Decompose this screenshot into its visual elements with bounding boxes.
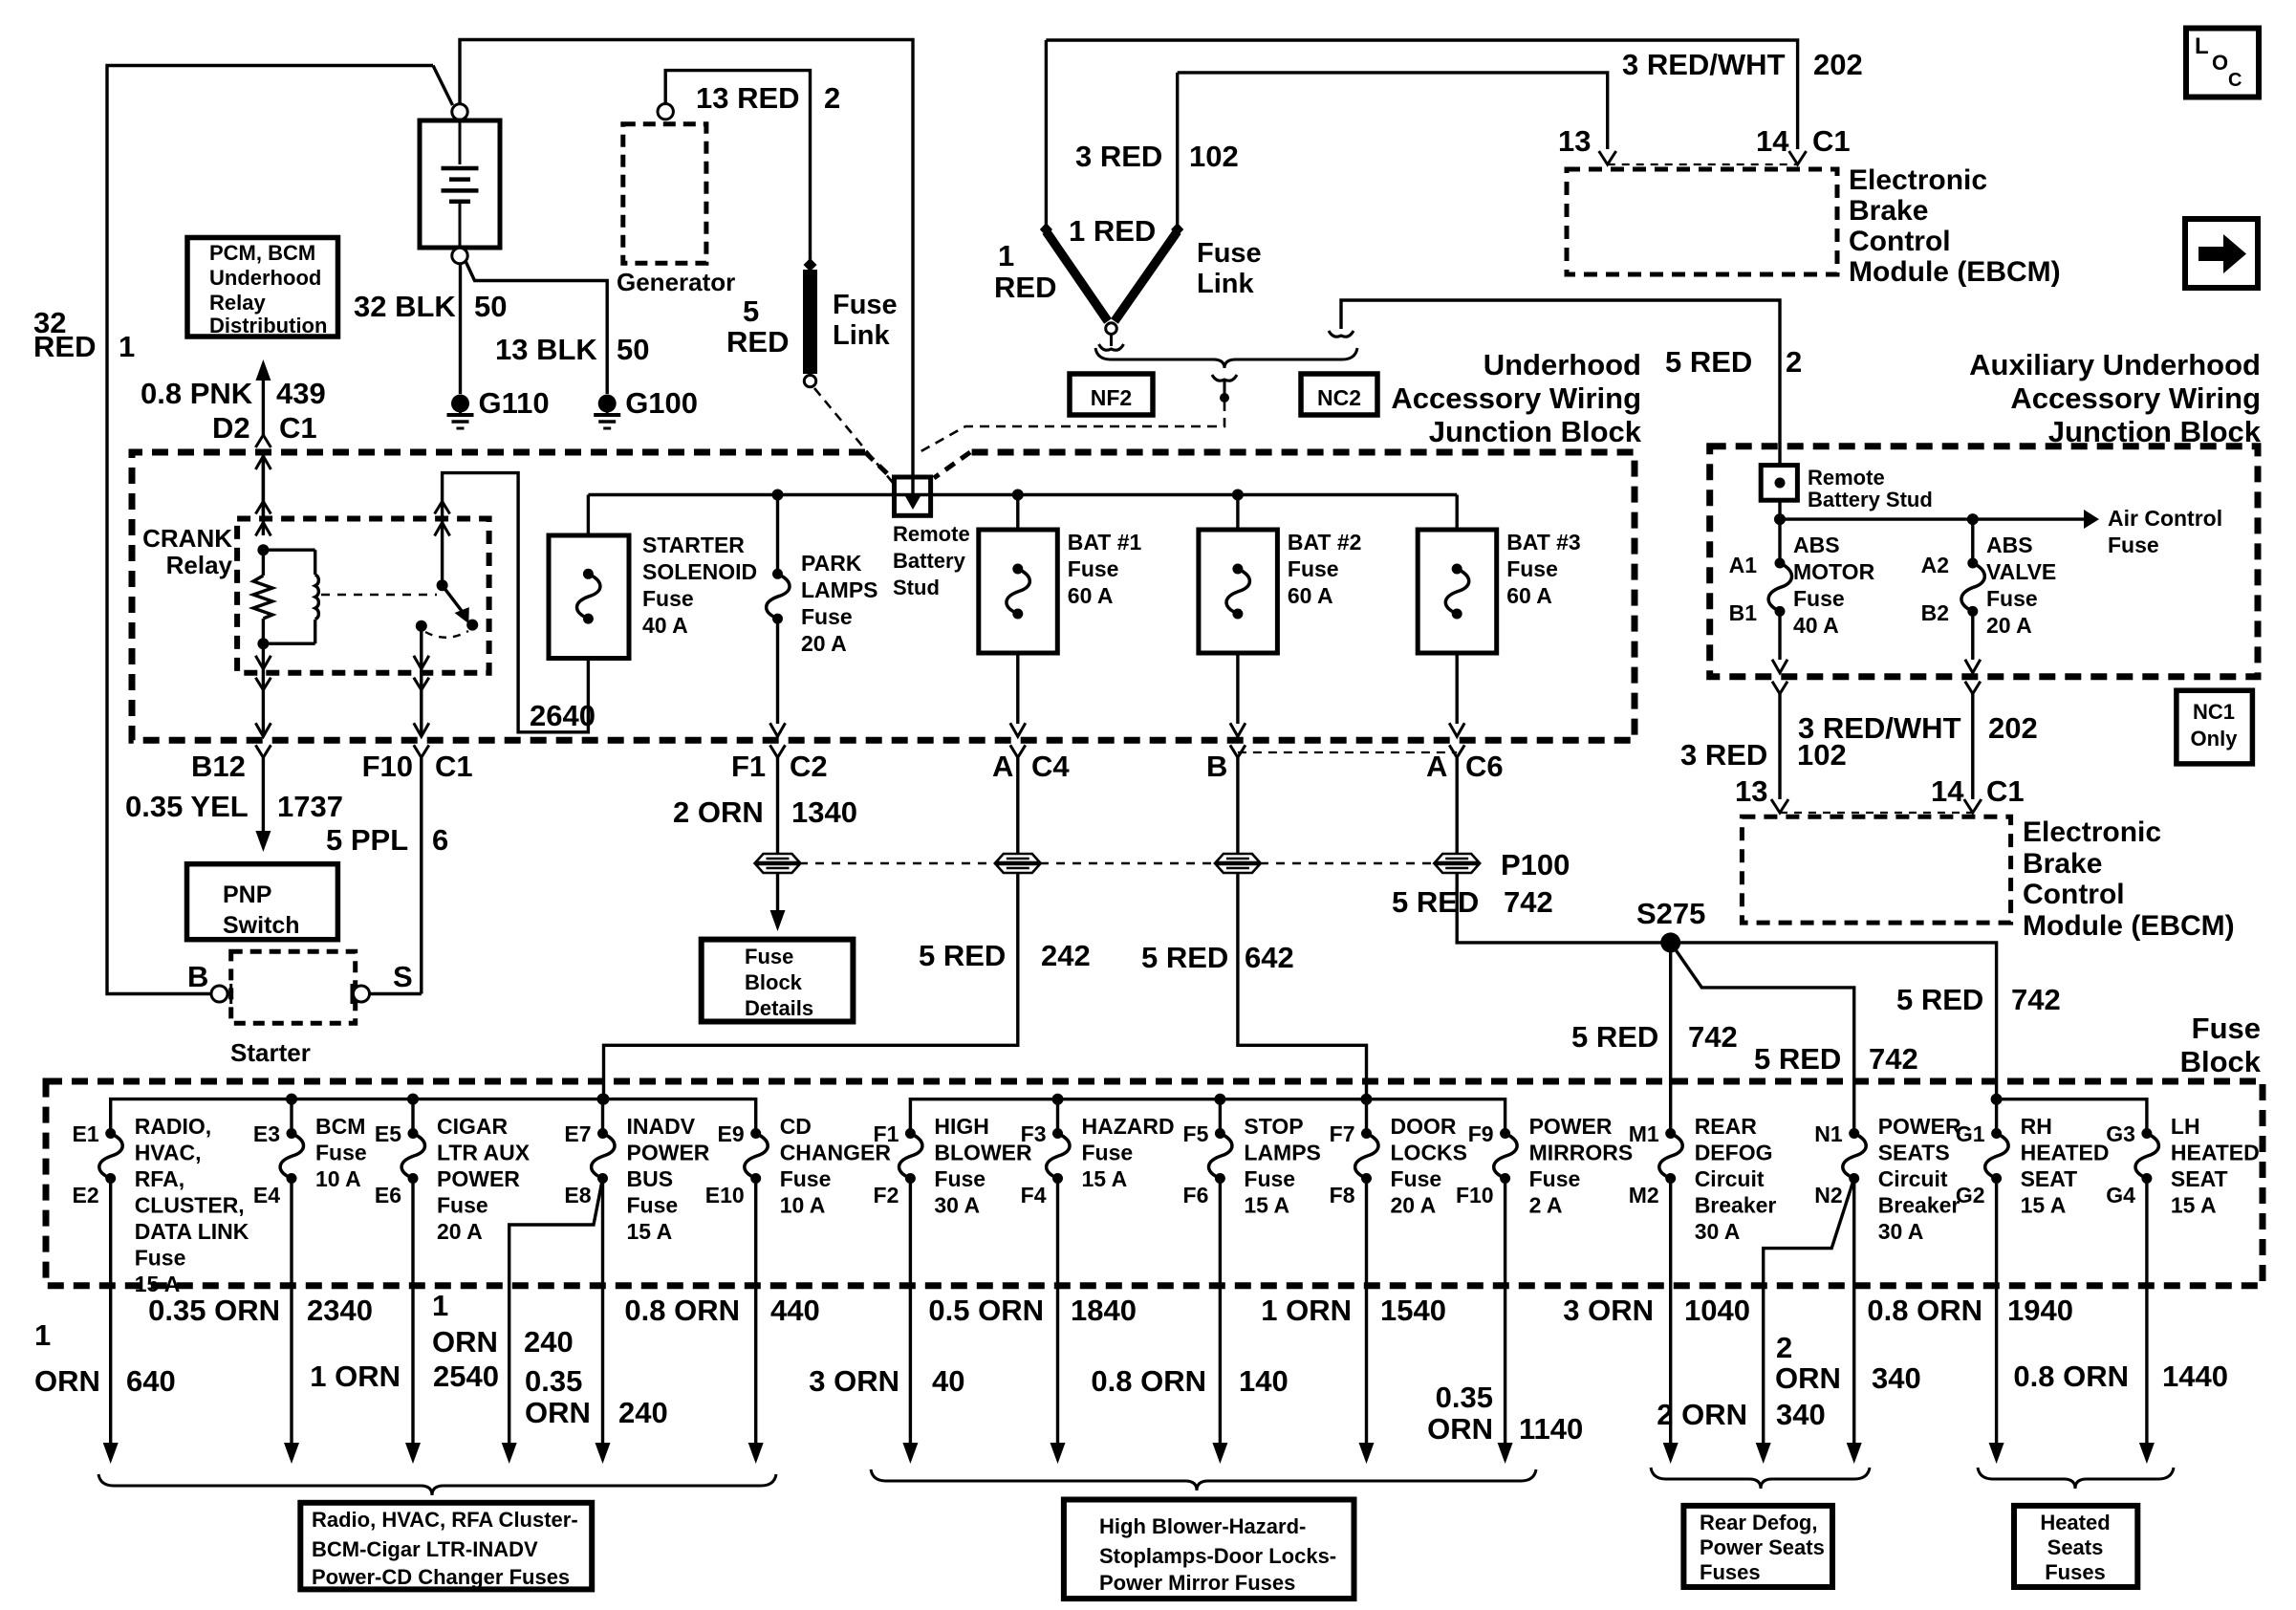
svg-text:30 A: 30 A [934,1193,980,1218]
svg-text:B12: B12 [191,750,246,783]
svg-text:5 RED: 5 RED [1896,983,1983,1016]
svg-text:PCM, BCM: PCM, BCM [209,241,315,265]
svg-text:Fuses: Fuses [2045,1560,2106,1584]
svg-text:Rear Defog,: Rear Defog, [1700,1511,1817,1534]
svg-text:3 ORN: 3 ORN [1563,1294,1654,1327]
svg-text:Battery Stud: Battery Stud [1808,488,1933,511]
svg-text:Fuse: Fuse [642,586,694,611]
svg-text:ORN: ORN [1775,1361,1841,1395]
fuse RH HEATED SEAT 15A (G1/G2) [1991,1128,2002,1139]
fuse POWER MIRRORS 2A (F9/F10) [1500,1128,1510,1139]
svg-text:14: 14 [1756,124,1789,158]
fuse RADIO/HVAC/RFA/CLUSTER/DATA LINK 15A (E1/E2) [105,1128,116,1139]
svg-text:Fuse: Fuse [1986,586,2038,611]
svg-text:Fuse: Fuse [833,290,898,320]
PNP switch box [187,864,338,940]
svg-text:2340: 2340 [307,1294,373,1327]
svg-text:Fuse: Fuse [627,1193,679,1218]
svg-text:Junction Block: Junction Block [1429,415,1642,448]
destination box: Heated Seats fuses [2014,1506,2137,1587]
svg-text:Power Mirror Fuses: Power Mirror Fuses [1099,1571,1295,1595]
auxiliary underhood accessory wiring junction block (dashed box) [1710,446,2258,677]
wire fuse output x=952.4 [909,1179,912,1444]
wire 0.8 PNK 439 to PCM/BCM box [262,669,265,691]
wire 5 RED 642 upper [1236,757,1239,854]
NF2 connector box [1070,374,1153,415]
dashed lead from fuse link to remote battery stud [814,388,894,484]
fuse block (dashed box) [46,1081,2263,1286]
relay coil + resistor network [257,544,269,555]
svg-text:3 RED: 3 RED [1680,738,1767,772]
arrow to PNP switch [255,831,271,852]
svg-text:140: 140 [1239,1364,1289,1398]
connector crossing F1/C2 [770,723,786,736]
svg-text:E9: E9 [718,1121,745,1146]
brace (radio group) [98,1474,776,1495]
wire fuse output x=1574.6 [1504,1179,1506,1444]
svg-text:Fuse: Fuse [934,1166,986,1191]
svg-text:1: 1 [998,239,1014,272]
svg-text:B: B [187,960,208,993]
fuse block E-row bus [111,1099,756,1134]
svg-text:0.8 PNK: 0.8 PNK [141,377,253,410]
svg-text:Brake: Brake [2023,848,2102,880]
svg-text:RED: RED [33,330,96,363]
svg-text:BAT #2: BAT #2 [1288,530,1362,555]
svg-text:LAMPS: LAMPS [801,577,878,602]
connector crossing (BAT #1 output) [1010,723,1026,736]
svg-text:C2: C2 [790,750,828,783]
svg-text:1040: 1040 [1684,1294,1750,1327]
svg-text:C1: C1 [279,411,317,445]
svg-text:6: 6 [432,823,448,857]
arrow 0.8 PNK 439 to PCM [255,359,271,381]
svg-text:15 A: 15 A [2021,1193,2067,1218]
svg-text:1140: 1140 [1519,1412,1583,1446]
svg-text:P100: P100 [1501,848,1570,881]
svg-text:5 RED: 5 RED [1665,345,1752,379]
svg-text:13 RED: 13 RED [696,81,800,115]
wire (V fuse link left feed) [1045,40,1048,229]
svg-text:Distribution: Distribution [209,314,327,337]
connector crossing B2 [1965,660,1981,673]
svg-text:40: 40 [932,1364,964,1398]
fuse HAZARD 15A (F3/F4) [1056,1099,1059,1134]
wire fuse output x=1939.7 [1852,1179,1855,1444]
svg-text:RED: RED [994,271,1056,304]
brace (high blower group) [871,1469,1536,1490]
svg-text:20 A: 20 A [801,631,847,656]
svg-text:PARK: PARK [801,551,862,576]
svg-text:340: 340 [1776,1398,1826,1431]
svg-text:3 ORN: 3 ORN [809,1364,899,1398]
junction E bus feed (242) [598,1094,610,1105]
wire fuse output x=1276.4 [1219,1179,1222,1444]
svg-text:G100: G100 [625,386,698,420]
svg-text:BCM: BCM [315,1114,365,1139]
svg-text:5 PPL: 5 PPL [326,823,408,857]
svg-text:ORN: ORN [34,1364,100,1398]
CRANK relay (dashed box) [237,519,489,673]
svg-text:5 RED: 5 RED [1754,1042,1841,1076]
svg-text:10 A: 10 A [315,1166,361,1191]
junction dot (aux bus tee) [1774,513,1786,525]
svg-text:10 A: 10 A [780,1193,826,1218]
connector crossing (relay pin, crank box bottom right) [414,656,429,669]
svg-text:1737: 1737 [277,790,343,823]
svg-text:Fuse: Fuse [437,1193,488,1218]
svg-text:2 A: 2 A [1529,1193,1563,1218]
starter solenoid fuse 40A (boxed) [587,495,590,536]
svg-text:15 A: 15 A [1082,1166,1128,1191]
svg-text:Fuse: Fuse [1391,1166,1442,1191]
svg-text:Fuse: Fuse [745,945,793,968]
lead flare below V fuse link [1110,334,1113,346]
svg-text:CD: CD [780,1114,812,1139]
svg-text:F2: F2 [874,1183,899,1207]
svg-text:RH: RH [2021,1114,2052,1139]
bus wire (remote stud distribution) [588,493,1457,496]
wire fuse output x=1429.5 [1365,1179,1368,1444]
svg-text:INADV: INADV [627,1114,696,1139]
svg-text:742: 742 [1869,1042,1918,1076]
park lamps fuse 20A [772,490,784,501]
svg-text:DATA LINK: DATA LINK [135,1219,249,1244]
svg-text:BAT #3: BAT #3 [1506,530,1581,555]
svg-text:Generator: Generator [617,268,735,296]
dashed notch left of remote stud [865,452,892,478]
svg-text:B: B [1206,750,1227,783]
svg-text:POWER: POWER [1529,1114,1613,1139]
svg-text:F7: F7 [1330,1121,1355,1146]
wire 3 RED 102 [1178,73,1608,149]
svg-text:E6: E6 [375,1183,401,1207]
brace spanning NF2..NC2 [1095,348,1357,368]
connector crossing D2/C1 (junction top, PNK) [255,456,271,469]
svg-text:RFA,: RFA, [135,1166,184,1191]
svg-text:SEAT: SEAT [2021,1166,2078,1191]
wire from NC2 lead to aux junction block (5 RED 2) [1329,331,1354,337]
svg-text:Fuses: Fuses [1700,1560,1761,1584]
svg-text:CIGAR: CIGAR [437,1114,509,1139]
svg-text:C4: C4 [1031,750,1070,783]
svg-text:E1: E1 [73,1121,99,1146]
svg-text:60 A: 60 A [1506,583,1552,608]
svg-text:60 A: 60 A [1068,583,1114,608]
svg-text:742: 742 [1688,1020,1738,1054]
svg-text:2540: 2540 [433,1360,499,1393]
svg-text:15 A: 15 A [2171,1193,2217,1218]
wire 5 RED 642 [1238,873,1367,1096]
svg-text:40 A: 40 A [642,613,688,638]
svg-text:LH: LH [2171,1114,2200,1139]
grommet (park lamps wire) [756,854,800,873]
svg-text:F1: F1 [731,750,766,783]
svg-text:202: 202 [1988,711,2038,745]
pin chevron 13 [1599,151,1616,164]
splice S275 [1660,932,1680,952]
svg-text:1840: 1840 [1071,1294,1137,1327]
svg-text:Underhood: Underhood [1484,348,1641,381]
battery negative terminal circle [452,248,467,263]
svg-text:A: A [1426,750,1447,783]
fuse INADV POWER BUS 15A (E7/E8) [601,1099,604,1134]
svg-text:ORN: ORN [525,1396,591,1429]
svg-text:RADIO,: RADIO, [135,1114,212,1139]
svg-text:B1: B1 [1729,600,1758,625]
battery (vehicle battery, boxed) [452,104,467,120]
coil (relay) [315,575,319,620]
svg-text:A: A [992,750,1013,783]
NC2 connector box [1301,374,1377,415]
wire 5 RED 742 to rear defog breaker [1669,943,1672,1134]
svg-text:STOP: STOP [1244,1114,1303,1139]
resistor (relay) [253,576,272,619]
svg-text:Fuse: Fuse [780,1166,832,1191]
svg-text:Only: Only [2191,727,2239,751]
svg-text:1940: 1940 [2007,1294,2073,1327]
svg-text:0.35 YEL: 0.35 YEL [125,790,249,823]
svg-text:1 RED: 1 RED [1069,214,1156,248]
svg-text:High Blower-Hazard-: High Blower-Hazard- [1099,1514,1306,1538]
svg-text:Circuit: Circuit [1695,1166,1765,1191]
svg-text:A1: A1 [1729,553,1758,577]
svg-text:LOCKS: LOCKS [1391,1141,1468,1165]
svg-text:E10: E10 [705,1183,745,1207]
wire 3 RED/WHT 202 top run [1046,40,1797,149]
svg-text:E7: E7 [564,1121,591,1146]
svg-text:C: C [2228,70,2242,91]
svg-text:BLOWER: BLOWER [934,1141,1032,1165]
PCM, BCM underhood relay distribution box [187,238,338,337]
svg-text:242: 242 [1041,939,1091,972]
svg-text:Stud: Stud [893,576,940,599]
fuse HIGH BLOWER 30A (F1/F2) [905,1128,916,1139]
svg-text:Module (EBCM): Module (EBCM) [2023,910,2235,942]
svg-text:REAR: REAR [1695,1114,1758,1139]
wire 5 RED 242 [604,873,1018,1096]
connector crossing (BAT #3 output) [1449,723,1464,736]
svg-text:MIRRORS: MIRRORS [1529,1141,1634,1165]
wire diagonal into battery positive [433,66,453,106]
BAT #1 fuse 60A (boxed) [1012,490,1024,501]
svg-text:A2: A2 [1921,553,1949,577]
svg-text:C1: C1 [435,750,473,783]
svg-text:CRANK: CRANK [142,524,232,553]
svg-text:E2: E2 [73,1183,99,1207]
svg-text:1 ORN: 1 ORN [1261,1294,1352,1327]
svg-text:SEAT: SEAT [2171,1166,2228,1191]
svg-text:742: 742 [2011,983,2061,1016]
svg-text:G2: G2 [1956,1183,1985,1207]
svg-text:440: 440 [770,1294,820,1327]
dashed actuation link coil to switch [321,594,437,596]
svg-text:STARTER: STARTER [642,533,745,557]
wire 2 ORN 1340 [776,757,779,854]
wire fuse output x=790.7 [754,1179,757,1444]
svg-text:14: 14 [1931,774,1964,808]
svg-text:Fuse: Fuse [1529,1166,1581,1191]
svg-text:1: 1 [432,1289,448,1322]
svg-text:742: 742 [1504,885,1553,919]
svg-text:LAMPS: LAMPS [1244,1141,1321,1165]
svg-text:0.8 ORN: 0.8 ORN [1091,1364,1206,1398]
wire 5 RED 742 to power seats breaker [1671,943,1854,1134]
fuse link V (1 RED) thick element [1040,223,1052,236]
svg-text:E8: E8 [564,1183,591,1207]
wire fuse output x=2088.6 [1995,1179,1998,1444]
svg-text:Air Control: Air Control [2108,506,2222,531]
fuse BCM 10A (E3/E4) [290,1099,292,1134]
svg-text:Block: Block [745,970,803,994]
fuse block G-row bus [1997,1099,2147,1134]
svg-text:Fuse: Fuse [1082,1141,1134,1165]
svg-text:Electronic: Electronic [1849,164,1987,196]
NC1 Only reference box [2177,690,2253,764]
svg-text:NC1: NC1 [2193,700,2235,724]
brace (heated seats group) [1978,1468,2174,1489]
svg-text:5 RED: 5 RED [1571,1020,1658,1054]
svg-text:3 RED: 3 RED [1075,140,1162,173]
svg-text:Breaker: Breaker [1878,1193,1960,1218]
fuse link (5 RED) thick element [804,258,817,272]
svg-text:Block: Block [2180,1045,2262,1078]
svg-text:NC2: NC2 [1317,385,1361,410]
svg-text:Accessory Wiring: Accessory Wiring [1391,381,1641,415]
svg-text:202: 202 [1813,48,1863,81]
brace (rear defog group) [1651,1468,1870,1489]
svg-text:0.8 ORN: 0.8 ORN [2013,1360,2129,1393]
wire (V fuse link right feed) [1176,73,1179,229]
grommet (242 wire) [996,854,1040,873]
svg-text:ABS: ABS [1793,533,1840,557]
fuse LH HEATED SEAT 15A (G3/G4) [2141,1128,2152,1139]
svg-text:1540: 1540 [1380,1294,1446,1327]
svg-text:40 A: 40 A [1793,613,1839,638]
svg-text:1340: 1340 [791,795,857,829]
svg-text:Heated: Heated [2040,1511,2110,1534]
wire 2 ORN 340 (N2 jog) [1764,1179,1854,1444]
svg-text:G1: G1 [1956,1121,1985,1146]
svg-text:C6: C6 [1465,750,1504,783]
center splice flare with dot and dashed lead into junction block [1212,375,1237,381]
svg-text:DEFOG: DEFOG [1695,1141,1773,1165]
ABS valve fuse 20A [1971,519,1974,563]
dashed connector link B to A (C4/C6) [1238,751,1457,753]
svg-text:13: 13 [1735,774,1767,808]
svg-text:HVAC,: HVAC, [135,1141,202,1165]
svg-text:30 A: 30 A [1878,1219,1924,1244]
svg-text:2: 2 [824,81,840,115]
svg-text:15 A: 15 A [1244,1193,1289,1218]
destination box: High Blower group fuses [1064,1500,1354,1599]
svg-text:Fuse: Fuse [315,1141,367,1165]
dashed notch right of remote stud [934,452,970,478]
svg-text:0.8 ORN: 0.8 ORN [1867,1294,1982,1327]
svg-text:G4: G4 [2106,1183,2135,1207]
starter B terminal circle [211,986,227,1002]
svg-text:Switch: Switch [223,912,300,939]
svg-text:M2: M2 [1629,1183,1659,1207]
svg-text:ORN: ORN [1427,1412,1493,1446]
svg-text:102: 102 [1189,140,1239,173]
destination box: Rear Defog, Power Seats fuses [1683,1506,1832,1587]
pin chevron 13 (EBCM2) [1771,799,1788,813]
svg-text:C1: C1 [1986,774,2025,808]
svg-text:Fuse: Fuse [1244,1166,1295,1191]
svg-text:S275: S275 [1636,897,1705,930]
svg-text:Breaker: Breaker [1695,1193,1777,1218]
svg-text:Module (EBCM): Module (EBCM) [1849,256,2061,288]
svg-text:2: 2 [1776,1331,1792,1364]
relay switch [437,579,448,591]
connector crossing F10/C1 [414,723,429,736]
svg-text:240: 240 [524,1325,574,1359]
grommet P100 [1435,854,1479,873]
svg-text:Remote: Remote [893,522,970,546]
svg-text:2: 2 [1786,345,1802,379]
wire fuse output x=630.5 [601,1179,604,1444]
svg-text:Fuse: Fuse [1068,556,1119,581]
svg-text:HIGH: HIGH [934,1114,989,1139]
battery plate short 2 [449,199,470,204]
BAT #2 fuse 60A (boxed) [1232,490,1244,501]
svg-text:N2: N2 [1814,1183,1842,1207]
fuse CIGAR LTR AUX POWER 20A (E5/E6) [411,1099,414,1134]
svg-text:0.35: 0.35 [1436,1381,1493,1414]
svg-text:F3: F3 [1021,1121,1047,1146]
svg-text:F1: F1 [874,1121,899,1146]
wire 5 RED 742 upper [1455,757,1458,854]
svg-text:RED: RED [726,325,789,359]
wire 5 RED 742 from P100 to S275 [1457,873,1996,1096]
svg-text:13: 13 [1558,124,1591,158]
svg-text:15 A: 15 A [627,1219,673,1244]
wire 32 BLK 50 to G110 [459,264,462,395]
EBCM module #2 (dashed box) [1742,816,2010,923]
svg-text:F6: F6 [1183,1183,1209,1207]
svg-text:ORN: ORN [432,1325,498,1359]
svg-text:0.35: 0.35 [525,1364,582,1398]
fuse POWER SEATS circuit breaker 30A (N1/N2) [1849,1128,1859,1139]
connector crossing (BAT #2 output) [1230,723,1245,736]
fuse block F-row bus [910,1099,1505,1134]
starter (dashed box) [231,951,356,1023]
svg-text:CLUSTER,: CLUSTER, [135,1193,245,1218]
svg-text:20 A: 20 A [437,1219,483,1244]
svg-text:POWER: POWER [1878,1114,1961,1139]
svg-text:Radio, HVAC, RFA Cluster-: Radio, HVAC, RFA Cluster- [312,1508,578,1532]
svg-text:5 RED: 5 RED [1141,941,1228,974]
svg-text:Circuit: Circuit [1878,1166,1948,1191]
svg-text:Fuse: Fuse [1793,586,1845,611]
svg-text:F9: F9 [1468,1121,1494,1146]
svg-text:340: 340 [1872,1361,1921,1395]
svg-text:F4: F4 [1021,1183,1047,1207]
starter S terminal circle [354,986,370,1002]
svg-text:Control: Control [2023,879,2125,910]
underhood accessory wiring junction block (dashed box) [132,452,1635,740]
svg-text:Fuse: Fuse [1506,556,1558,581]
svg-text:5 RED: 5 RED [919,939,1006,972]
svg-text:5 RED: 5 RED [1392,885,1479,919]
svg-text:Relay: Relay [209,291,266,315]
fuse block details reference box [702,940,854,1022]
svg-text:1: 1 [34,1318,51,1352]
svg-text:20 A: 20 A [1391,1193,1437,1218]
svg-text:Fuse: Fuse [2108,533,2159,557]
svg-text:Underhood: Underhood [209,266,321,290]
